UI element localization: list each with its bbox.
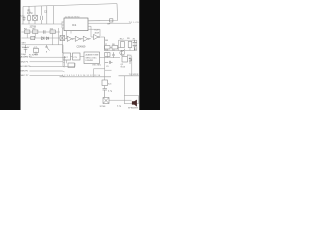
wire left cluster verticals xyxy=(27,28,62,53)
wire bus row4 xyxy=(30,70,63,72)
wire speaker top to bus xyxy=(123,76,125,96)
wire left cluster top rail xyxy=(22,31,61,33)
inverter U2D xyxy=(94,34,100,39)
left black border bar xyxy=(0,0,21,110)
capacitor C6 electrolytic xyxy=(103,88,108,98)
wire vertical x140 xyxy=(136,40,138,50)
switch S1 xyxy=(45,45,50,53)
svg-text:GEN LOGIC: GEN LOGIC xyxy=(86,57,98,59)
svg-text:SNZ P4: SNZ P4 xyxy=(21,61,29,63)
wire vertical x130 xyxy=(129,48,131,51)
wire bottom rail xyxy=(22,23,63,25)
wire ticked pin bus xyxy=(60,76,112,78)
wire verticals below xyxy=(26,52,37,54)
speaker LS1 xyxy=(132,100,137,107)
capacitor C8 xyxy=(44,30,45,34)
inverter U2C xyxy=(83,36,89,41)
wire vertical osc trim xyxy=(46,6,48,24)
wire bottom right horizontal xyxy=(119,75,139,77)
inverter U2B xyxy=(75,36,81,41)
svg-text:CD4069: CD4069 xyxy=(77,46,86,49)
connector P1 on loop xyxy=(110,19,113,22)
svg-text:100μ: 100μ xyxy=(21,54,27,56)
svg-text:SEC P7: SEC P7 xyxy=(21,75,30,77)
wire A5 down xyxy=(104,86,106,88)
resistor R7 xyxy=(104,46,110,49)
wire vertical osc c2 xyxy=(41,6,43,24)
wire vertical crystal X1 xyxy=(34,6,36,24)
wire mid horizontal xyxy=(22,37,61,39)
wire right loop edge xyxy=(88,4,118,21)
wire bus to box vertical xyxy=(104,77,106,80)
resistor R5 xyxy=(31,36,35,39)
wire A3 out xyxy=(100,57,121,59)
right black border bar xyxy=(139,0,160,110)
svg-text:MIN P6: MIN P6 xyxy=(21,71,29,73)
wire center drop to bus xyxy=(104,58,106,77)
wire vertical osc c1 xyxy=(28,6,30,24)
svg-text:TO SPKR: TO SPKR xyxy=(129,74,139,76)
wire vertical osc right xyxy=(53,6,55,24)
diode D2 xyxy=(129,57,131,65)
svg-text:IC1: IC1 xyxy=(72,23,77,27)
wire vertical x107 xyxy=(106,53,108,58)
resistor R10 xyxy=(105,53,111,57)
resistor R9 vertical xyxy=(128,42,132,48)
block A5 xyxy=(102,80,108,86)
svg-text:DRIVER: DRIVER xyxy=(86,60,94,62)
svg-text:1M: 1M xyxy=(105,40,108,42)
block A2 xyxy=(73,53,81,60)
crystal X3 xyxy=(103,98,109,104)
svg-text:1 2 3 4 5 6 7 8 9 10 11 12 13: 1 2 3 4 5 6 7 8 9 10 11 12 13 14 xyxy=(62,75,100,77)
wire left rail vertical xyxy=(22,7,24,25)
svg-text:TO LCD: TO LCD xyxy=(129,22,140,24)
resistor R2 xyxy=(25,30,30,33)
transistor Q1 xyxy=(120,49,125,56)
wire vertical x131.8 xyxy=(131,56,133,76)
resistor R1 xyxy=(28,16,31,20)
block A4 xyxy=(68,63,75,68)
capacitor C2 xyxy=(40,16,42,20)
resistor R11 vertical xyxy=(121,42,125,48)
wire A2-A3 xyxy=(80,56,84,58)
wire bus row5 xyxy=(30,75,63,77)
wire inverter chain xyxy=(65,37,105,43)
capacitor C1 xyxy=(23,16,26,22)
wire top rail xyxy=(23,4,117,7)
svg-text:IC2f: IC2f xyxy=(95,30,99,32)
wire resistor row xyxy=(105,37,121,50)
wire stub y70 xyxy=(105,69,112,71)
svg-text:ALARM TONE: ALARM TONE xyxy=(86,54,100,57)
wire bus collector vertical xyxy=(64,56,66,67)
wire bus row2 xyxy=(30,61,63,63)
wire bus row1 xyxy=(30,56,63,58)
wire junction dot xyxy=(104,57,105,58)
wire bottom horizontal xyxy=(109,99,132,101)
svg-text:SPEAKER: SPEAKER xyxy=(128,107,139,110)
resistor R4 xyxy=(50,30,55,33)
wire U1 right pin 4 xyxy=(88,29,100,36)
crystal X2 xyxy=(60,36,65,41)
battery B1 xyxy=(133,40,137,50)
wire U1 right pin 3 xyxy=(88,26,94,37)
block A1 xyxy=(63,53,71,60)
wire bus row3 xyxy=(30,65,63,67)
block Q2 xyxy=(122,57,128,63)
svg-text:OSC SEL: OSC SEL xyxy=(92,65,102,67)
resistor R8 xyxy=(112,46,118,49)
diode D3 xyxy=(46,37,48,40)
svg-text:100μ 6V: 100μ 6V xyxy=(22,47,30,49)
wire U1 right pin to right label xyxy=(88,22,131,24)
wire U1 left pins xyxy=(62,22,64,29)
IC U1 xyxy=(64,18,88,31)
svg-text:K1 K2 K3: K1 K2 K3 xyxy=(29,54,38,56)
capacitor C4 electrolytic xyxy=(24,45,28,53)
capacitor C5 xyxy=(112,52,114,57)
inverter U2A xyxy=(67,36,73,41)
wire U1 bottom stubs xyxy=(62,31,71,39)
svg-text:SET: SET xyxy=(22,43,27,45)
svg-text:1 2 3 4 5 6 7 8 9 0: 1 2 3 4 5 6 7 8 9 0 xyxy=(65,16,80,18)
wire right mid horizontal xyxy=(104,50,137,52)
wire below blocks xyxy=(63,60,75,67)
block A3 xyxy=(84,52,100,64)
box around speaker xyxy=(124,96,138,104)
wire U1 right pin to loop xyxy=(88,20,100,22)
svg-text:32768: 32768 xyxy=(100,106,107,108)
wire right top horizontal xyxy=(119,40,137,50)
diode D1 xyxy=(42,37,45,40)
crystal X1 xyxy=(33,15,38,20)
resistor R3 xyxy=(33,30,38,33)
svg-text:4.7M: 4.7M xyxy=(27,12,32,15)
wire y68.8 xyxy=(94,69,105,77)
resistor R6 xyxy=(34,48,39,52)
capacitor C9 stub xyxy=(105,61,113,64)
wire low horizontal xyxy=(22,45,64,53)
wire bus end ticks xyxy=(63,57,65,76)
wire A1-A2 xyxy=(71,56,73,58)
